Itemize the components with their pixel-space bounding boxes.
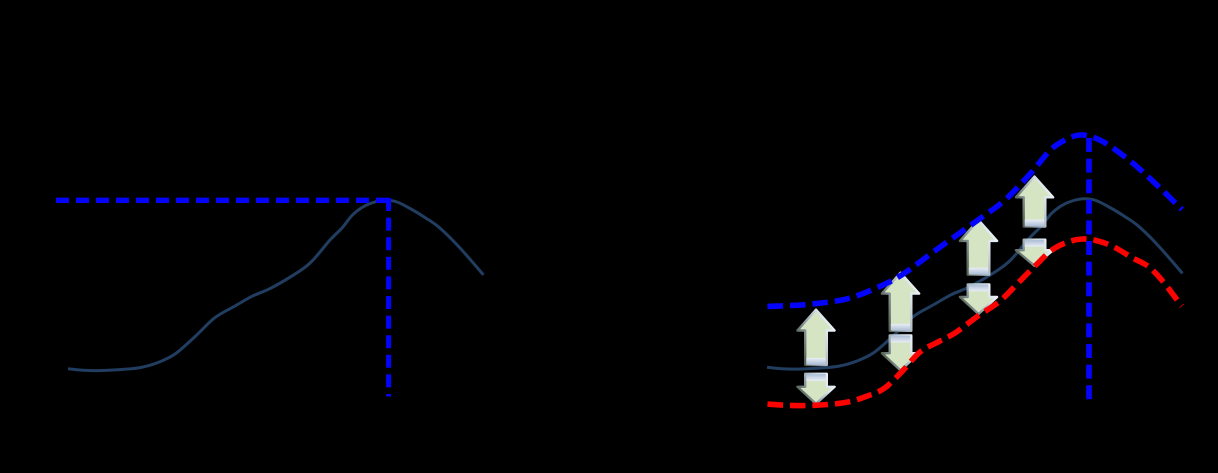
right upper confidence bound dashed curve (blue) [766,135,1182,307]
uncertainty arrow pair 1 up arrow [797,310,834,365]
uncertainty arrow pair 2 down arrow [882,336,919,371]
uncertainty arrow pair 2 up arrow [882,273,919,331]
uncertainty arrow pair 4 up arrow [1016,177,1053,227]
uncertainty arrow pair 1 down arrow [797,374,834,404]
uncertainty arrow pair 3 down arrow [960,284,997,314]
uncertainty arrow pair 3 up arrow [960,220,997,275]
right optimum vertical dashed line [1086,138,1092,400]
left optimum vertical dashed line [386,198,391,397]
left fitness curve [68,200,484,370]
right lower confidence bound dashed curve (red) [766,239,1182,406]
right mean fitness curve [767,199,1183,369]
left optimal fitness horizontal dashed line [56,198,389,203]
uncertainty arrow pair 4 down arrow [1016,240,1053,266]
